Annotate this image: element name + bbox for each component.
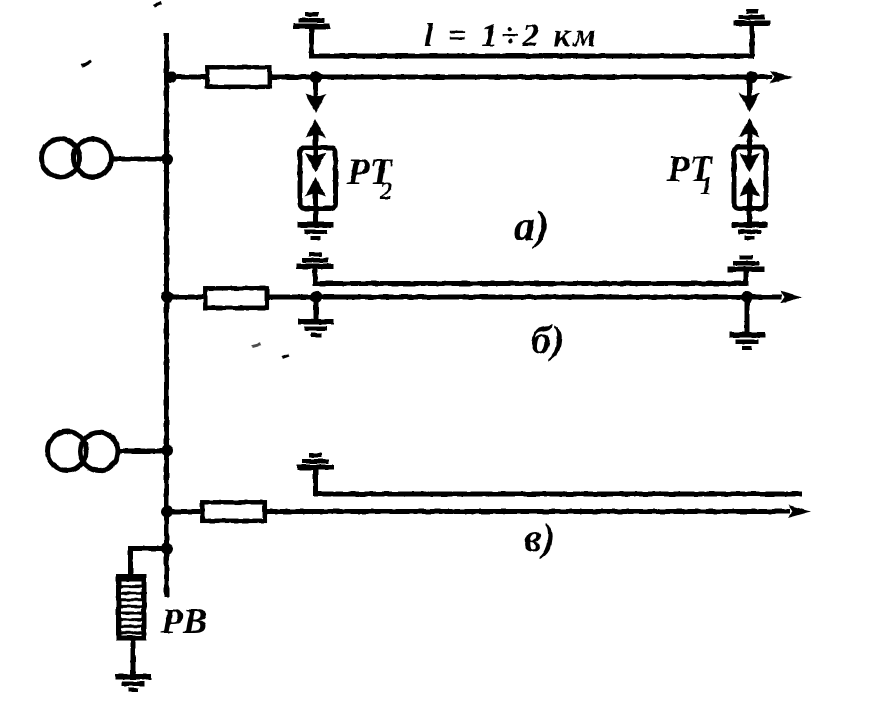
svg-text:в): в) — [524, 515, 555, 560]
svg-text:2: 2 — [379, 178, 393, 205]
svg-text:1: 1 — [700, 173, 713, 200]
svg-text:l = 1÷2 км: l = 1÷2 км — [424, 18, 599, 54]
svg-text:РВ: РВ — [160, 601, 207, 641]
svg-text:б): б) — [531, 317, 564, 362]
svg-text:а): а) — [514, 204, 549, 250]
